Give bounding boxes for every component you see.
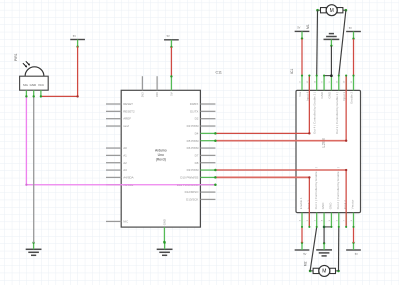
svg-text:GND: GND — [321, 202, 325, 210]
svg-text:RESET2: RESET2 — [123, 109, 135, 113]
svg-text:A2: A2 — [123, 161, 127, 165]
svg-text:5V: 5V — [297, 26, 300, 30]
svg-text:D13/SCK: D13/SCK — [186, 197, 198, 201]
svg-text:(Rev3): (Rev3) — [156, 158, 166, 162]
svg-text:D6 PWM: D6 PWM — [187, 146, 199, 150]
svg-text:5V: 5V — [167, 34, 170, 38]
svg-text:D1/TX: D1/TX — [190, 109, 198, 113]
svg-text:M1: M1 — [306, 24, 310, 29]
svg-text:D5 PWM: D5 PWM — [187, 139, 199, 143]
svg-text:5V: 5V — [349, 26, 352, 30]
svg-text:N/C: N/C — [123, 219, 129, 223]
svg-text:M2: M2 — [303, 261, 307, 266]
svg-text:Enable 1: Enable 1 — [299, 197, 303, 209]
svg-text:A4/SDA: A4/SDA — [123, 175, 133, 179]
svg-text:Vmotor: Vmotor — [351, 200, 355, 210]
svg-text:D12/MISO: D12/MISO — [185, 190, 199, 194]
svg-text:GND: GND — [320, 91, 324, 99]
svg-text:AREF: AREF — [123, 117, 131, 121]
svg-text:D7: D7 — [195, 153, 199, 157]
svg-text:5V: 5V — [355, 252, 358, 256]
svg-text:Out 2 ( Controlled by Enable 1: Out 2 ( Controlled by Enable 1 ) — [336, 167, 340, 209]
svg-text:5V: 5V — [170, 92, 174, 96]
svg-text:Uno: Uno — [158, 153, 164, 157]
svg-text:C11: C11 — [216, 71, 222, 75]
svg-text:D9 PWM: D9 PWM — [187, 168, 199, 172]
svg-text:RESET: RESET — [123, 102, 133, 106]
svg-text:D4: D4 — [195, 131, 199, 135]
svg-text:3V3: 3V3 — [141, 92, 145, 97]
svg-text:D8: D8 — [195, 161, 199, 165]
svg-text:GND: GND — [329, 202, 333, 210]
svg-text:D0/RX: D0/RX — [190, 102, 199, 106]
svg-text:A1: A1 — [123, 153, 127, 157]
svg-text:SIG: SIG — [23, 83, 29, 87]
svg-text:Out 1 ( Controlled by Enable 1: Out 1 ( Controlled by Enable 1 ) — [314, 167, 318, 209]
svg-text:5V: 5V — [73, 34, 76, 38]
svg-text:Enable 2: Enable 2 — [350, 91, 354, 103]
svg-text:VCC: VCC — [38, 83, 44, 87]
svg-text:D3 PWM: D3 PWM — [187, 124, 199, 128]
svg-text:Vss: Vss — [298, 91, 302, 97]
svg-text:A3: A3 — [123, 168, 127, 172]
svg-text:M: M — [322, 269, 326, 275]
svg-text:D2: D2 — [195, 117, 199, 121]
svg-text:GND: GND — [163, 219, 167, 225]
svg-text:5V: 5V — [303, 252, 306, 256]
svg-text:L298: L298 — [321, 138, 326, 148]
svg-text:A0: A0 — [123, 146, 127, 150]
svg-text:Out 4 ( Controlled by Enable 2: Out 4 ( Controlled by Enable 2 ) — [313, 92, 317, 134]
svg-text:GND: GND — [30, 83, 36, 87]
svg-text:Arduino: Arduino — [155, 148, 167, 152]
svg-text:PIR1: PIR1 — [14, 53, 18, 61]
svg-text:M: M — [330, 8, 334, 14]
svg-text:GND: GND — [327, 91, 331, 99]
svg-text:D10 PWM/SS: D10 PWM/SS — [180, 175, 198, 179]
svg-text:ioref: ioref — [123, 124, 129, 128]
svg-text:VIN: VIN — [155, 92, 159, 97]
svg-text:IC1: IC1 — [290, 69, 294, 74]
svg-text:Out 3 ( Controlled by Enable 2: Out 3 ( Controlled by Enable 2 ) — [335, 92, 339, 134]
